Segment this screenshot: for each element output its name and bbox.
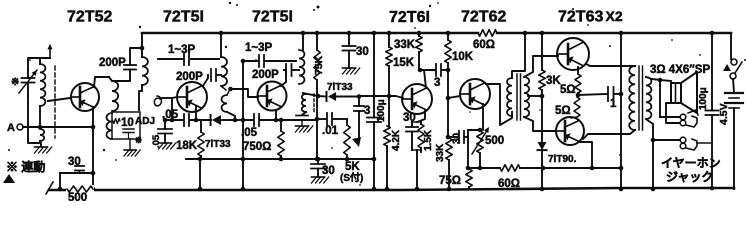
stage label 72T52 bbox=[67, 9, 112, 26]
svg-text:X2: X2 bbox=[606, 8, 623, 24]
driver transformer primary bbox=[507, 31, 527, 116]
AGC line wire bbox=[165, 119, 317, 121]
resistor 18K bbox=[198, 120, 205, 159]
stage label 72T63x2 bbox=[558, 8, 623, 26]
wire emitter to 75ohm bbox=[466, 130, 471, 170]
resistor 15K bbox=[386, 31, 393, 96]
svg-text:200P: 200P bbox=[252, 69, 279, 81]
power switch bbox=[723, 33, 742, 79]
capacitor 100u output bbox=[706, 31, 719, 191]
label 33K bbox=[394, 39, 416, 51]
svg-text:30: 30 bbox=[68, 156, 81, 168]
svg-text:7lT90.: 7lT90. bbox=[548, 154, 577, 165]
svg-text:60Ω: 60Ω bbox=[498, 178, 520, 190]
capacitor 3 (Q4-Q5 coupling) bbox=[419, 64, 450, 76]
osc trimmer capacitor bbox=[123, 129, 142, 145]
capacitor 200P (IF2) bbox=[252, 64, 299, 86]
transistor Q2 72T51 first IF bbox=[177, 82, 207, 112]
label 15K bbox=[393, 57, 415, 69]
transistor Q6 72T63 upper bbox=[557, 38, 589, 70]
svg-text:60Ω: 60Ω bbox=[473, 39, 495, 51]
capacitor .05 (a) bbox=[184, 114, 189, 126]
label 4.2K rotated bbox=[391, 129, 402, 151]
IF transformer T2 primary coil bbox=[221, 57, 227, 90]
terminal A bbox=[7, 122, 40, 134]
label .05 (a) bbox=[162, 109, 179, 121]
resistor 5 ohm (Q6) bbox=[575, 74, 581, 93]
svg-text:1.5K: 1.5K bbox=[423, 129, 434, 151]
label 3ohm 4X6SP bbox=[650, 64, 710, 76]
svg-text:30: 30 bbox=[356, 46, 369, 58]
svg-text:75K: 75K bbox=[313, 55, 325, 75]
label 100u rotated bbox=[376, 99, 387, 122]
oscillator coil winding bbox=[106, 113, 112, 139]
resistor 1.5K bbox=[418, 122, 424, 152]
resistor 500 (thermistor) bbox=[477, 128, 484, 171]
capacitor 100u filter bbox=[367, 31, 381, 192]
svg-text:.05: .05 bbox=[151, 134, 162, 148]
label 30 (B+ bypass) bbox=[356, 46, 369, 58]
wire Q6 collector bbox=[586, 64, 635, 66]
label 60ohm (bus) bbox=[473, 39, 495, 51]
resistor 750 bbox=[278, 118, 285, 162]
wire Q5 base bbox=[448, 96, 460, 98]
transistor Q1 72T52 converter bbox=[71, 83, 99, 111]
oscillator coil unit box bbox=[112, 112, 140, 139]
svg-text:200P: 200P bbox=[99, 57, 126, 69]
ground (IFT3) bbox=[296, 126, 313, 132]
wire to jack 2 bbox=[651, 138, 680, 143]
antenna up arrow bbox=[47, 44, 52, 58]
AVC rail wire bbox=[186, 158, 374, 160]
svg-text:3Ω 4X6″SP: 3Ω 4X6″SP bbox=[650, 64, 710, 76]
svg-text:30: 30 bbox=[322, 165, 335, 177]
vertical wire (AGC return) bbox=[241, 59, 246, 192]
transistor Q5 72T62 driver bbox=[460, 79, 490, 109]
label 4.5V rotated bbox=[718, 103, 730, 125]
svg-text:33K: 33K bbox=[435, 143, 446, 162]
label 100u output rotated bbox=[698, 87, 709, 110]
wire Q7 emitter top bbox=[571, 117, 577, 118]
variable capacitor VC1 (tuning) bbox=[19, 70, 37, 96]
output transformer secondary bbox=[646, 77, 651, 119]
wire center tap bbox=[528, 94, 544, 99]
svg-text:.01: .01 bbox=[322, 125, 339, 137]
wire bus to IFT2 bbox=[219, 31, 224, 57]
wire emitter junction to cap bbox=[578, 94, 607, 95]
label .01 bbox=[322, 125, 339, 137]
trimmer capacitor 1~3P (T1) bbox=[168, 44, 196, 65]
svg-text:7lT33: 7lT33 bbox=[205, 139, 231, 150]
wire secondary bottom down bbox=[646, 119, 655, 191]
svg-text:72T5I: 72T5I bbox=[252, 9, 293, 26]
earphone jack contact 2 bbox=[680, 137, 697, 150]
volume potentiometer 5K bbox=[344, 119, 351, 161]
resistor 60 ohm (in B+ bus) bbox=[478, 30, 497, 37]
svg-text:500: 500 bbox=[485, 135, 504, 147]
resistor 5 ohm (Q7) bbox=[574, 93, 580, 117]
label 75ohm bbox=[439, 175, 461, 187]
noise specks bbox=[8, 2, 746, 186]
label 5ohm (Q6) bbox=[560, 84, 576, 96]
label 500 (thermistor) bbox=[485, 135, 504, 147]
battery 4.5V bbox=[725, 79, 743, 189]
label * (variable cap mark) bbox=[11, 77, 19, 88]
wire emitter RC loop bbox=[58, 173, 93, 191]
ground (.05 cap) bbox=[159, 143, 176, 149]
capacitor .05 to ground bbox=[158, 118, 172, 143]
capacitor 1u bbox=[608, 87, 623, 101]
trimmer capacitor 1~3P (T2) bbox=[243, 42, 296, 67]
transistor Q4 72T61 bbox=[402, 84, 432, 114]
antenna coil L1 secondary bbox=[40, 129, 44, 145]
svg-text:100μ: 100μ bbox=[698, 87, 709, 110]
wire Q1 collector up bbox=[94, 77, 109, 87]
label 7lT33 (AGC) bbox=[205, 139, 231, 150]
resistor 10K bbox=[445, 31, 452, 101]
label 3 (b) bbox=[434, 77, 440, 89]
diode 7lT33 (AGC) bbox=[211, 115, 231, 125]
speaker bbox=[671, 72, 697, 113]
svg-text:※: ※ bbox=[135, 135, 142, 145]
capacitor 30 (Q4 emitter) bbox=[406, 122, 418, 150]
label 10K bbox=[452, 51, 474, 63]
svg-text:72T5I: 72T5I bbox=[163, 9, 204, 26]
capacitor .01 (detector out) bbox=[317, 113, 347, 125]
wire A-line to emitter line bbox=[40, 125, 95, 130]
label 7lT33 (detector) bbox=[327, 82, 353, 93]
label 5K bbox=[345, 161, 360, 173]
output transformer primary bbox=[629, 66, 635, 130]
svg-text:A: A bbox=[7, 122, 15, 134]
wire B+ to output transformer bbox=[619, 31, 624, 192]
driver transformer core bbox=[517, 74, 521, 120]
svg-text:3: 3 bbox=[434, 77, 440, 89]
wire Q5 collector to driver transformer bbox=[486, 84, 512, 125]
svg-text:1~3P: 1~3P bbox=[168, 44, 196, 56]
resistor 10 (osc) bbox=[113, 119, 120, 124]
svg-text:10: 10 bbox=[121, 117, 134, 129]
wire jack line 1 bbox=[660, 80, 680, 117]
oscillator feedback coil bbox=[109, 77, 118, 111]
IFT3 secondary coil bbox=[302, 93, 306, 112]
svg-text:.05: .05 bbox=[241, 127, 258, 139]
node: coil/A junction bbox=[38, 125, 43, 130]
label earphone jack line1 bbox=[661, 156, 721, 170]
wire jack 2 to output cap bbox=[697, 142, 712, 144]
stage label 72T61 bbox=[389, 9, 430, 26]
label 30 (Q4) bbox=[403, 112, 416, 124]
wire coil to Q1 base bbox=[48, 98, 70, 101]
svg-text:10K: 10K bbox=[452, 51, 474, 63]
svg-text:75Ω: 75Ω bbox=[439, 175, 461, 187]
svg-text:750Ω: 750Ω bbox=[243, 141, 271, 153]
capacitor 200P (oscillator) bbox=[99, 46, 144, 81]
svg-text:ジャック: ジャック bbox=[666, 170, 713, 184]
60 ohm rail wire bbox=[468, 166, 621, 171]
diode 7lT33 detector bbox=[327, 92, 362, 101]
wire bus corner to IFT1 bbox=[141, 33, 143, 57]
svg-text:4.2K: 4.2K bbox=[391, 129, 402, 151]
driver transformer secondary bbox=[524, 77, 529, 117]
svg-text:72T6I: 72T6I bbox=[389, 9, 430, 26]
label 30 rotated (Q5) bbox=[452, 132, 463, 144]
svg-text:72T52: 72T52 bbox=[67, 9, 112, 26]
svg-text:5Ω: 5Ω bbox=[560, 84, 576, 96]
ground (AVC cap) bbox=[312, 177, 329, 183]
label 3 (coupling) bbox=[364, 105, 370, 117]
capacitor 30 to ground (AVC) bbox=[311, 157, 325, 177]
wire IFT2 secondary bottom to AGC bbox=[227, 112, 237, 122]
label .05 rotated bbox=[151, 134, 162, 148]
capacitor 3 coupling bbox=[354, 94, 403, 111]
resistor 500 (in bottom bus) bbox=[66, 185, 94, 193]
wire speaker bottom to jack 1b bbox=[666, 103, 680, 123]
wire var-cap top to coil top bbox=[28, 58, 50, 70]
label 500 bbox=[68, 192, 87, 204]
capacitor .05 (b) bbox=[254, 114, 259, 126]
svg-text:18K: 18K bbox=[176, 140, 198, 152]
label 60ohm (rail) bbox=[498, 178, 520, 190]
svg-text:ADJ: ADJ bbox=[135, 116, 155, 127]
ground bottom bus wire bbox=[49, 188, 734, 190]
label .05 (b) bbox=[241, 127, 258, 139]
mark filled triangle bbox=[3, 174, 15, 183]
resistor 33K (Q4 load) bbox=[416, 31, 423, 70]
svg-text:30: 30 bbox=[403, 112, 416, 124]
svg-text:5K: 5K bbox=[345, 161, 360, 173]
wire Q4 emitter to bus bbox=[412, 150, 421, 191]
svg-text:3: 3 bbox=[364, 105, 370, 117]
thermistor arrow bbox=[472, 127, 489, 154]
wire Q4 emitter bbox=[412, 110, 425, 122]
label 33K rotated (Q5 base) bbox=[435, 143, 446, 162]
stage label 72T51 (first IF) bbox=[163, 9, 204, 26]
svg-text:15K: 15K bbox=[393, 57, 415, 69]
wire var-cap bottom to ground bbox=[28, 96, 41, 146]
label 75K bbox=[313, 55, 325, 75]
wire IFT3 secondary bottom bbox=[302, 112, 306, 115]
diode 7lT90 bias bbox=[538, 142, 547, 191]
IF transformer T1 primary coil bbox=[139, 57, 148, 110]
wire Q5 emitter bbox=[468, 104, 483, 130]
resistor 3K bbox=[539, 31, 546, 142]
wire secondary bottom to Q7 base bbox=[524, 117, 555, 131]
svg-text:72T63: 72T63 bbox=[558, 9, 603, 26]
svg-text:200P: 200P bbox=[176, 71, 203, 83]
ground (antenna) bbox=[35, 147, 52, 153]
wire to Q2 base bbox=[170, 97, 177, 122]
svg-text:1~3P: 1~3P bbox=[245, 42, 273, 54]
wire Q3 emitter down bbox=[274, 110, 279, 122]
capacitor 30 (emitter bypass) bbox=[75, 166, 84, 173]
trimmer line T1 bbox=[158, 58, 219, 60]
svg-text:.05: .05 bbox=[162, 109, 179, 121]
resistor 60 ohm (rail) bbox=[500, 165, 520, 172]
pot wiper arrow bbox=[352, 111, 361, 147]
wire Q6 emitter bbox=[577, 67, 579, 74]
B+ top bus wire bbox=[142, 32, 731, 35]
wire detector line bbox=[303, 93, 326, 98]
capacitor 30 (Q5) bbox=[448, 131, 468, 143]
resistor 75K bbox=[314, 31, 321, 162]
wire secondary top to Q6 base bbox=[524, 56, 558, 77]
svg-text:1: 1 bbox=[610, 98, 617, 110]
capacitor 200P (IF1) bbox=[176, 69, 221, 83]
antenna coil L1 primary bbox=[40, 58, 45, 127]
wire Q7 emitter down bbox=[579, 142, 592, 168]
wire Q2 collector to 200P bbox=[203, 75, 208, 86]
svg-text:4.5V: 4.5V bbox=[718, 103, 730, 125]
label * rendou (ganged) bbox=[6, 159, 45, 174]
IFT2 secondary coil bbox=[222, 87, 233, 112]
label 30 (AVC) bbox=[322, 165, 335, 177]
resistor 33K (Q5 base) bbox=[446, 98, 453, 191]
bottom bus start slash bbox=[46, 182, 53, 194]
stage label 72T51 (second IF) bbox=[252, 9, 293, 26]
label earphone jack line2 bbox=[666, 170, 713, 184]
label 1.5K rotated bbox=[423, 129, 434, 151]
wire Q2 emitter down bbox=[194, 107, 199, 122]
label 18K bbox=[176, 140, 198, 152]
label 750ohm bbox=[243, 141, 271, 153]
label 3K bbox=[546, 75, 561, 87]
svg-text:※ 連動: ※ 連動 bbox=[6, 159, 45, 174]
antenna coil core (dashed) bbox=[54, 66, 56, 138]
label 7lT90 bbox=[548, 154, 577, 165]
resistor 4.2K bbox=[384, 96, 391, 191]
capacitor 30 to ground (B+) bbox=[343, 31, 356, 68]
IFT1 secondary loop bbox=[154, 96, 172, 106]
stage label 72T62 bbox=[461, 9, 506, 26]
wire Q1 emitter down bbox=[91, 107, 96, 191]
earphone jack contact 1 bbox=[680, 110, 698, 127]
transistor Q3 72T51 second IF bbox=[258, 82, 287, 111]
ground (osc box) bbox=[124, 139, 140, 156]
svg-text:※: ※ bbox=[11, 77, 19, 88]
IFT3 core (dashed) bbox=[313, 94, 315, 112]
resistor 75 ohm bbox=[466, 169, 473, 189]
label 30 bbox=[68, 156, 81, 168]
wire AVC to bus bbox=[198, 157, 203, 192]
svg-text:5Ω: 5Ω bbox=[555, 105, 571, 117]
label ADJ bbox=[135, 116, 155, 127]
label 5ohm (Q7) bbox=[555, 105, 571, 117]
svg-text:33K: 33K bbox=[394, 39, 416, 51]
svg-text:7lT33: 7lT33 bbox=[327, 82, 353, 93]
label (S-tsuki) bbox=[340, 171, 363, 184]
svg-text:30: 30 bbox=[452, 132, 463, 144]
svg-text:100μ: 100μ bbox=[376, 99, 387, 122]
wire Q4 collector bbox=[418, 68, 426, 88]
output transformer core bbox=[639, 66, 643, 130]
transistor Q7 72T63 lower bbox=[556, 117, 584, 145]
capacitor .01 (IF bypass) bbox=[296, 116, 308, 127]
wire Q7 collector bbox=[583, 130, 635, 139]
svg-text:500: 500 bbox=[68, 192, 87, 201]
label 10 bbox=[121, 117, 134, 129]
svg-text:(S付): (S付) bbox=[340, 171, 363, 184]
wire bus to IFT3 bbox=[301, 31, 306, 50]
IF transformer T3 primary coil bbox=[299, 50, 304, 84]
wire secondary top to speaker bbox=[646, 77, 671, 82]
svg-text:72T62: 72T62 bbox=[461, 9, 506, 26]
node emitter junction bbox=[576, 93, 581, 98]
wire IFT2 secondary to Q3 base bbox=[230, 89, 258, 97]
ground (B+ bypass cap) bbox=[343, 68, 360, 74]
label 1u bbox=[610, 98, 617, 110]
